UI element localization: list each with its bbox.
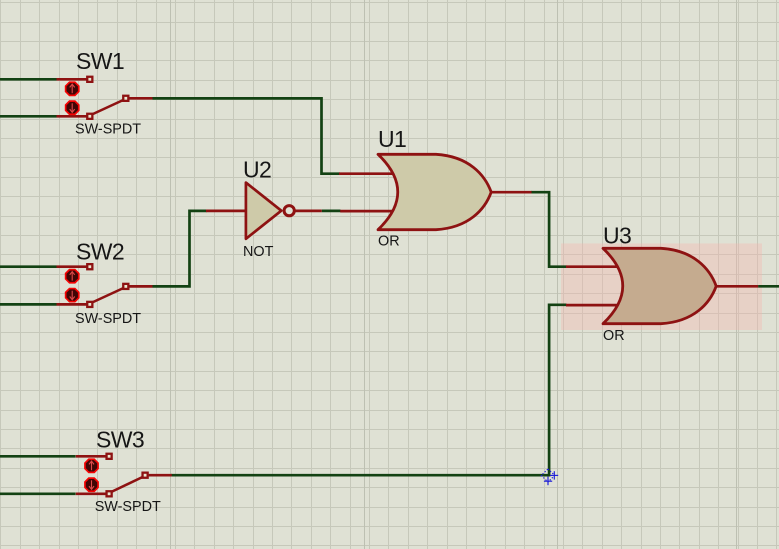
lever of SW2	[91, 288, 124, 303]
wire U1 output to U3 input A	[531, 192, 567, 267]
switch SW1	[57, 76, 153, 120]
terminal square pin1 of SW1	[86, 76, 93, 83]
U1 pin input A	[339, 172, 396, 175]
svg-text:U3: U3	[603, 223, 631, 249]
switch SW3	[76, 453, 172, 498]
svg-text:SW-SPDT: SW-SPDT	[95, 499, 161, 515]
actuator up button of SW1	[66, 82, 79, 95]
wire SW1 bottom input	[0, 115, 57, 118]
actuator up button of SW2	[66, 270, 79, 283]
switch SW2	[57, 263, 153, 308]
U1 pin input B	[340, 210, 396, 213]
pin 1 (NC throw) of SW3	[76, 455, 106, 458]
U2 pin output	[295, 210, 322, 213]
not-gate U2 body	[246, 183, 281, 239]
U2 pin input	[206, 210, 247, 213]
svg-text:U1: U1	[378, 126, 406, 152]
common terminal square of SW3	[141, 472, 148, 479]
U3 pin input B	[566, 304, 620, 307]
pin 2 (NO throw) of SW3	[76, 492, 106, 495]
U1 pin output	[489, 191, 532, 194]
svg-text:SW-SPDT: SW-SPDT	[75, 311, 141, 327]
common pin of SW3	[149, 474, 172, 477]
common terminal square of SW2	[122, 283, 129, 290]
common terminal square of SW1	[122, 95, 129, 102]
pin 1 (NC throw) of SW2	[57, 265, 87, 268]
svg-text:NOT: NOT	[243, 244, 274, 260]
or-gate U3 body (selected tint)	[603, 248, 716, 323]
wire SW2 bottom input	[0, 303, 57, 306]
wire SW3 top input	[0, 455, 76, 458]
svg-text:OR: OR	[603, 328, 625, 344]
actuator up button of SW3	[85, 459, 98, 472]
pin 1 (NC throw) of SW1	[57, 78, 87, 81]
pivot square pin2 of SW1	[86, 113, 93, 120]
pivot square pin2 of SW2	[86, 301, 93, 308]
wire U3 output to right edge	[758, 285, 779, 288]
wire SW3 common to U3 input B	[171, 305, 567, 475]
wire U2 output to U1 input B	[322, 210, 341, 213]
svg-text:SW3: SW3	[96, 426, 144, 452]
pin 2 (NO throw) of SW1	[57, 115, 87, 118]
pin 2 (NO throw) of SW2	[57, 303, 87, 306]
common pin of SW2	[129, 285, 152, 288]
selection highlight on U3	[561, 243, 762, 330]
actuator down button of SW3	[85, 478, 98, 491]
lever of SW3	[111, 477, 144, 493]
wire SW2 common to U2 input	[153, 211, 207, 287]
svg-text:SW-SPDT: SW-SPDT	[75, 122, 141, 138]
actuator down button of SW1	[66, 101, 79, 114]
wire SW3 bottom input	[0, 492, 76, 495]
or-gate U1 body	[378, 154, 491, 229]
lever of SW1	[91, 100, 124, 115]
common pin of SW1	[129, 97, 152, 100]
terminal square pin1 of SW2	[86, 263, 93, 270]
svg-text:SW1: SW1	[76, 48, 124, 74]
svg-text:SW2: SW2	[76, 239, 124, 265]
wire SW1 top input	[0, 78, 57, 81]
U3 pin input A	[566, 265, 620, 268]
terminal square pin1 of SW3	[105, 453, 112, 460]
wire SW1 common to U1 input A	[153, 98, 341, 173]
origin marker (blue)	[541, 469, 558, 485]
actuator down button of SW2	[66, 289, 79, 302]
svg-text:U2: U2	[243, 157, 271, 183]
not-gate U2 bubble	[284, 206, 294, 216]
pivot square pin2 of SW3	[105, 490, 112, 497]
svg-text:OR: OR	[378, 234, 400, 250]
wire SW2 top input	[0, 265, 57, 268]
U3 pin output	[715, 285, 758, 288]
